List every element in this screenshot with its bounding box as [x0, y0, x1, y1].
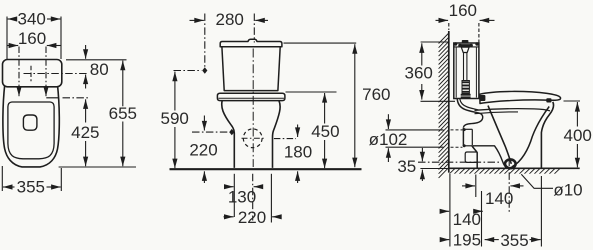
- dim 360: upper segment up arrow: [421, 43, 423, 65]
- outlet stub corner dot top: [463, 128, 466, 131]
- dim 450: top extension line: [286, 91, 337, 93]
- cistern inner wall back: [455, 48, 457, 98]
- dim 450: lower segment with down arrow: [324, 140, 326, 168]
- dim 355: dimension line inside arrows: [3, 186, 15, 188]
- pedestal base left extension below floor: [233, 174, 235, 217]
- svg-text:195: 195: [453, 230, 481, 249]
- cistern centre mark vertical: [30, 66, 32, 81]
- seat hinge edge line: [46, 97, 59, 99]
- toilet top view: cistern tank outline: [3, 60, 62, 87]
- toilet top view: water outlet spot: [23, 115, 37, 130]
- wall hatching: [439, 33, 449, 178]
- dim 160: dimension line, outside arrows: [7, 45, 18, 47]
- flush valve funnel: [461, 47, 469, 52]
- dim phi102: bottom extension dashes through wall: [451, 146, 463, 148]
- seat front bumper: [546, 98, 551, 102]
- cistern lid end cap front: [475, 42, 478, 45]
- front view: tank shelf: [217, 93, 285, 100]
- dim 280: left dash-dot extension (inlet axis): [204, 14, 206, 67]
- flush valve threaded base: [462, 81, 469, 94]
- dim 140 upper: left arrow: [462, 185, 475, 187]
- seat hinge dash-dot extension: [63, 97, 89, 99]
- svg-text:80: 80: [90, 60, 109, 79]
- seat hinge pointer arrow left: [18, 87, 20, 96]
- dim 355 right: left inside arrow: [485, 239, 499, 241]
- svg-text:655: 655: [109, 104, 137, 123]
- svg-text:450: 450: [311, 122, 339, 141]
- dim 160: left dashed extension: [448, 23, 450, 30]
- dim 180: upper arrow: [297, 125, 299, 138]
- dim 655: dimension line lower segment: [122, 122, 124, 167]
- dim 355: left extension line: [1, 166, 3, 191]
- svg-text:340: 340: [18, 10, 46, 29]
- front view: trap circle (dashed): [243, 129, 262, 148]
- dim phi10 leader: [521, 174, 553, 188]
- outlet axis dash-dot horizontal: [192, 131, 229, 133]
- dim 590: upper segment with up arrow: [174, 72, 176, 111]
- side view: outlet stub left face: [462, 128, 464, 147]
- flush valve overflow tube: [464, 53, 467, 81]
- cistern lid end cap back: [454, 42, 457, 45]
- side view: bottom ledge to outlet: [473, 146, 507, 168]
- dim 220 base: right outside arrow: [272, 216, 281, 218]
- dim 35: lower arrow: [421, 170, 423, 181]
- svg-text:220: 220: [238, 208, 266, 227]
- wall face line: [448, 31, 450, 173]
- dim 425: dimension line upper segment with up arrow: [85, 99, 87, 122]
- centreline extension below floor: [252, 174, 254, 221]
- bottom extension line (front of bowl): [59, 166, 136, 168]
- dim 220: lower arrow below floor: [203, 171, 205, 183]
- svg-text:180: 180: [284, 142, 312, 161]
- side view: cistern body: [454, 43, 479, 99]
- svg-text:130: 130: [228, 188, 256, 207]
- dim phi102: lower arrow: [387, 148, 389, 162]
- dim 80: upper arrow: [85, 45, 87, 59]
- wall face extension below floor: [449, 174, 451, 247]
- dim 160: right dashed extension: [478, 23, 480, 43]
- side view: outlet stub top: [463, 128, 472, 130]
- svg-text:760: 760: [362, 85, 390, 104]
- dim 160 top: dimension line outside arrows: [436, 19, 449, 21]
- dim phi102: upper arrow: [387, 114, 389, 129]
- svg-text:160: 160: [449, 1, 477, 20]
- floor line side view: [448, 167, 580, 169]
- svg-text:355: 355: [500, 231, 528, 250]
- toilet top view: bowl outer outline: [3, 84, 59, 167]
- front view: floor line: [170, 168, 362, 170]
- svg-text:590: 590: [161, 109, 189, 128]
- pedestal base right extension below floor: [270, 174, 272, 223]
- water inlet marker diamond: [202, 67, 207, 73]
- side view: floor outlet ring: [505, 159, 516, 168]
- floor hatching: [450, 169, 560, 174]
- dim 35: upper arrow: [421, 148, 423, 161]
- dim 340: dimension line with inside arrows: [8, 18, 17, 20]
- flush valve lock nut: [461, 94, 471, 96]
- dim 80: lower arrow: [85, 75, 87, 89]
- dim 140 upper: right arrow: [510, 185, 523, 187]
- dim 355: right extension line: [60, 168, 62, 191]
- front view: bowl left profile down to pedestal: [222, 101, 235, 168]
- dim 220: upper arrow: [203, 116, 205, 131]
- svg-text:140: 140: [453, 210, 481, 229]
- svg-text:280: 280: [216, 10, 244, 29]
- outlet side marker diamond: [229, 129, 234, 135]
- dim 130: right outside arrow: [254, 186, 262, 188]
- front view: cistern lid: [220, 39, 282, 47]
- svg-text:355: 355: [17, 177, 45, 196]
- side view: bowl front profile: [541, 102, 553, 168]
- dim 280: right dash-dot extension (centreline): [253, 14, 255, 43]
- outlet centreline below floor: [508, 159, 510, 213]
- dim phi102: top extension line: [386, 129, 444, 131]
- side view: trapway diagonal: [488, 106, 511, 164]
- flush valve top bar: [459, 44, 471, 46]
- side view: fixing lug: [465, 152, 477, 162]
- dim 80: top extension line (cistern top): [66, 59, 127, 61]
- side view: bowl rim edge under seat: [475, 109, 551, 111]
- dim 340: left extension line: [6, 17, 8, 60]
- svg-text:ø10: ø10: [553, 180, 582, 199]
- seat hinge pointer arrow right: [45, 87, 47, 96]
- fixing axis dash-dot line: [418, 161, 501, 163]
- side view: flush elbow from cistern to bowl: [457, 99, 483, 127]
- cistern centre line horizontal (dash-dot to 80 dim): [24, 73, 89, 75]
- svg-text:220: 220: [189, 141, 217, 160]
- dim phi102: top extension dashes through wall: [451, 129, 463, 131]
- side view: back below outlet to floor: [472, 146, 477, 168]
- inlet axis dash-dot horizontal: [174, 70, 202, 72]
- dim 360: top extension line (lid top): [421, 41, 449, 43]
- dim 450: upper segment with up arrow: [324, 93, 326, 124]
- dim 655: dimension line upper segment: [122, 61, 124, 107]
- front view: shelf top inner line: [218, 97, 284, 99]
- dim 140 lower: right arrow: [477, 210, 483, 212]
- cistern inner wall front: [475, 48, 477, 98]
- bowl front base extension below floor: [540, 176, 542, 247]
- outlet stub corner dot bottom: [463, 144, 466, 147]
- fixing hole extension line A: [475, 175, 477, 198]
- fixing hole extension line B: [481, 191, 483, 247]
- svg-text:140: 140: [485, 189, 513, 208]
- dim 400: upper segment up arrow: [576, 102, 578, 127]
- outlet height dash-dot extension right: [274, 138, 296, 140]
- dim 180: lower arrow below floor: [297, 171, 299, 183]
- side view: flush elbow inner line: [460, 99, 479, 110]
- flush button on lid: [462, 40, 469, 43]
- svg-text:160: 160: [18, 29, 46, 48]
- side view: cistern lid joint line: [454, 46, 479, 48]
- dim phi102: bottom extension line: [386, 146, 444, 148]
- svg-text:35: 35: [397, 157, 416, 176]
- side view: seat and lid wedge: [480, 91, 561, 103]
- dim 400: top extension line (rim): [564, 100, 581, 102]
- front view: vertical centreline: [252, 49, 254, 168]
- front view: bowl right profile down to pedestal: [273, 101, 281, 168]
- toilet top view: bowl inner rim: [8, 102, 54, 159]
- dim 130: left outside arrow: [225, 186, 234, 188]
- dim 590: lower segment with down arrow: [174, 127, 176, 168]
- dim 195: left outside arrow: [441, 239, 450, 241]
- seat hinge mark: [480, 95, 486, 101]
- side view: outlet stub bottom: [463, 145, 472, 147]
- dim 280: dimension line outside arrows: [190, 19, 204, 21]
- dim 760: top extension line from lid: [284, 42, 357, 44]
- dim 220 base: left outside arrow: [224, 216, 234, 218]
- dim 355 right: right inside arrow: [530, 239, 541, 241]
- dim 400: lower segment down arrow: [576, 144, 578, 167]
- side view: bowl rim lip second line: [475, 112, 519, 114]
- dim 425: dimension line lower segment with down arrow: [85, 141, 87, 166]
- dim 160: left dash-dot extension through cistern: [18, 47, 20, 87]
- dim 760: dimension line: [354, 44, 356, 167]
- svg-text:360: 360: [405, 64, 433, 83]
- dim 140 lower: left outside arrow: [441, 210, 450, 212]
- front view: tank body: [222, 47, 280, 91]
- svg-text:400: 400: [564, 126, 592, 145]
- svg-text:ø102: ø102: [369, 130, 408, 149]
- dim 340: right extension line: [60, 17, 62, 60]
- dim 160: right dash-dot extension through cistern: [45, 47, 47, 87]
- side view: outlet stub right side: [471, 129, 473, 146]
- dim 360: lower segment down arrow: [421, 84, 423, 100]
- floor level extension left of wall: [420, 168, 448, 170]
- side view: bowl front inner lip: [512, 107, 549, 167]
- front view: trap circle horizontal centreline: [242, 137, 265, 139]
- svg-text:425: 425: [71, 123, 99, 142]
- flush valve hinge circles: [458, 44, 461, 47]
- cistern bottom extension line: [421, 100, 456, 102]
